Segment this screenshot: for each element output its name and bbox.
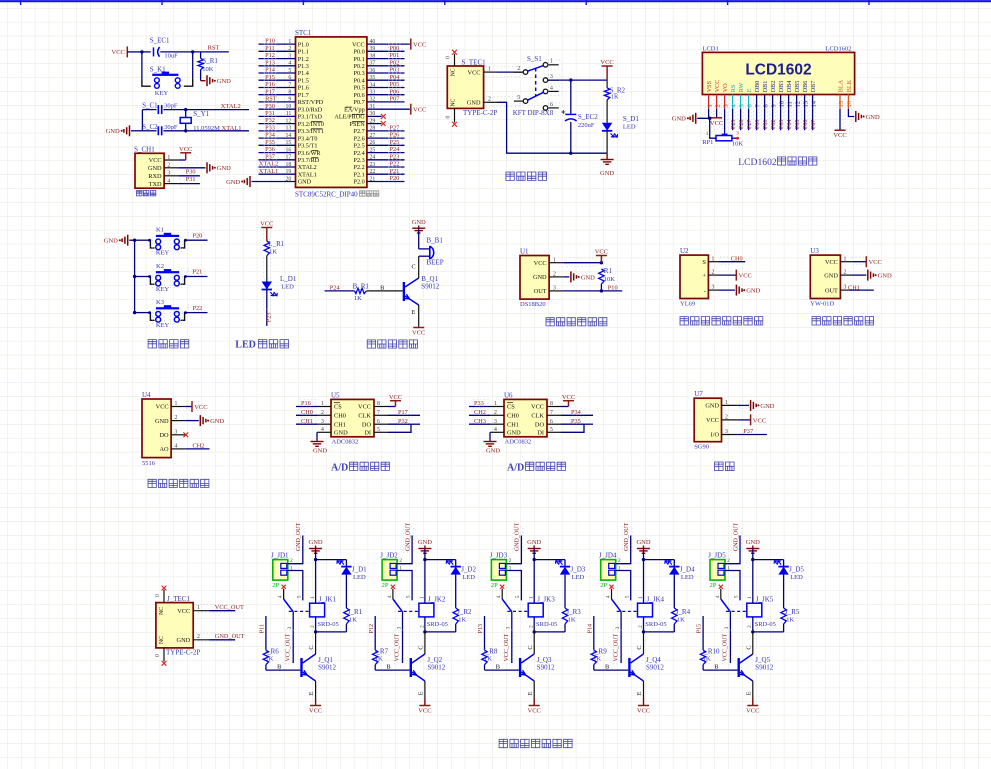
svg-text:2: 2 bbox=[727, 558, 730, 564]
svg-text:30pF: 30pF bbox=[164, 124, 178, 131]
svg-text:GND: GND bbox=[600, 170, 614, 177]
svg-text:10K: 10K bbox=[604, 276, 616, 283]
svg-text:1: 1 bbox=[197, 605, 200, 611]
svg-text:5: 5 bbox=[624, 595, 630, 598]
svg-text:B: B bbox=[605, 663, 609, 670]
svg-text:GND: GND bbox=[746, 539, 760, 546]
svg-text:1: 1 bbox=[310, 596, 316, 599]
svg-text:P3.1/TxD: P3.1/TxD bbox=[298, 114, 323, 121]
svg-text:VCC: VCC bbox=[714, 80, 721, 93]
svg-text:P13: P13 bbox=[478, 624, 484, 633]
svg-text:VCC: VCC bbox=[746, 708, 759, 715]
svg-text:BLA: BLA bbox=[838, 79, 845, 92]
svg-text:S9012: S9012 bbox=[427, 663, 445, 671]
svg-text:K2: K2 bbox=[156, 263, 164, 270]
svg-text:7: 7 bbox=[377, 410, 380, 416]
svg-text:5: 5 bbox=[550, 427, 553, 433]
svg-text:P02: P02 bbox=[390, 59, 400, 66]
svg-text:RST: RST bbox=[208, 45, 220, 52]
svg-text:J_R9: J_R9 bbox=[592, 648, 607, 656]
svg-text:GND: GND bbox=[155, 418, 169, 425]
svg-text:P04: P04 bbox=[787, 120, 793, 129]
svg-text:L_R1: L_R1 bbox=[268, 240, 284, 248]
svg-text:SRD-05: SRD-05 bbox=[755, 621, 776, 628]
svg-text:RP1: RP1 bbox=[702, 139, 713, 146]
svg-text:VCC: VCC bbox=[260, 221, 273, 228]
svg-text:VCC_OUT: VCC_OUT bbox=[395, 633, 401, 661]
svg-text:10uF: 10uF bbox=[164, 53, 178, 60]
svg-text:B: B bbox=[714, 663, 718, 670]
svg-text:VCC: VCC bbox=[531, 404, 544, 411]
svg-text:GND: GND bbox=[636, 539, 650, 546]
svg-text:LED: LED bbox=[281, 283, 294, 290]
svg-text:VCC: VCC bbox=[309, 708, 322, 715]
svg-text:+: + bbox=[702, 272, 706, 279]
svg-text:P32: P32 bbox=[265, 117, 275, 124]
svg-text:5: 5 bbox=[377, 427, 380, 433]
svg-text:GND: GND bbox=[746, 288, 760, 295]
svg-text:4: 4 bbox=[167, 178, 170, 184]
svg-text:NC: NC bbox=[159, 607, 165, 615]
svg-text:EA/Vpp: EA/Vpp bbox=[344, 106, 365, 113]
svg-text:GND: GND bbox=[210, 418, 224, 425]
svg-text:P14: P14 bbox=[587, 624, 593, 633]
svg-text:CH2: CH2 bbox=[193, 443, 205, 450]
svg-text:P2.7: P2.7 bbox=[354, 128, 365, 135]
svg-text:E: E bbox=[527, 691, 534, 695]
svg-text:VCC: VCC bbox=[869, 259, 882, 266]
svg-text:GND_OUT: GND_OUT bbox=[733, 523, 739, 552]
svg-text:J_JK2: J_JK2 bbox=[428, 596, 446, 604]
svg-text:VCC: VCC bbox=[468, 69, 481, 76]
svg-text:J_JD3: J_JD3 bbox=[490, 551, 508, 559]
svg-text:E: E bbox=[412, 309, 416, 316]
svg-text:C: C bbox=[527, 645, 534, 649]
svg-text:P12: P12 bbox=[265, 52, 275, 59]
svg-text:BEEP: BEEP bbox=[427, 258, 444, 266]
svg-text:4: 4 bbox=[278, 595, 284, 598]
svg-text:U2: U2 bbox=[680, 247, 689, 255]
svg-text:U4: U4 bbox=[142, 391, 151, 399]
svg-text:P0.3: P0.3 bbox=[354, 70, 365, 77]
svg-text:P13: P13 bbox=[265, 59, 275, 66]
svg-text:S_CH1: S_CH1 bbox=[134, 145, 155, 153]
svg-text:3: 3 bbox=[722, 104, 729, 107]
svg-text:GND: GND bbox=[527, 539, 541, 546]
svg-text:DO: DO bbox=[535, 421, 545, 428]
svg-text:P3.4/T0: P3.4/T0 bbox=[298, 135, 318, 142]
svg-text:GND: GND bbox=[177, 637, 191, 644]
svg-text:U3: U3 bbox=[810, 247, 819, 255]
svg-text:VCC_OUT: VCC_OUT bbox=[215, 604, 244, 611]
svg-text:2: 2 bbox=[509, 558, 512, 564]
svg-text:3: 3 bbox=[494, 419, 497, 425]
svg-text:VCC: VCC bbox=[739, 273, 752, 280]
svg-text:VCC: VCC bbox=[833, 132, 846, 139]
svg-text:ADC0832: ADC0832 bbox=[505, 439, 532, 446]
svg-text:RST/VPD: RST/VPD bbox=[298, 99, 324, 106]
svg-text:P23: P23 bbox=[390, 153, 400, 160]
svg-text:GND: GND bbox=[581, 274, 595, 281]
svg-text:3: 3 bbox=[396, 626, 402, 629]
svg-text:P02: P02 bbox=[771, 120, 777, 129]
svg-text:J_R3: J_R3 bbox=[566, 608, 581, 616]
svg-text:P31: P31 bbox=[186, 176, 196, 183]
svg-text:DB6: DB6 bbox=[802, 81, 809, 93]
svg-text:B_R1: B_R1 bbox=[353, 282, 370, 290]
svg-text:3: 3 bbox=[167, 171, 170, 177]
svg-text:E: E bbox=[636, 691, 643, 695]
svg-text:P2.2: P2.2 bbox=[354, 164, 365, 171]
svg-text:B_B1: B_B1 bbox=[427, 237, 444, 245]
svg-text:11: 11 bbox=[786, 101, 793, 107]
svg-text:P00: P00 bbox=[755, 120, 761, 129]
svg-text:VCC: VCC bbox=[825, 259, 838, 266]
svg-text:1: 1 bbox=[175, 401, 178, 407]
svg-text:LED: LED bbox=[235, 340, 256, 351]
svg-text:P3.6/WR: P3.6/WR bbox=[298, 150, 322, 157]
svg-text:VCC: VCC bbox=[595, 249, 608, 256]
svg-text:CLK: CLK bbox=[358, 413, 371, 420]
svg-text:1K: 1K bbox=[375, 656, 383, 663]
svg-text:CLK: CLK bbox=[531, 413, 544, 420]
svg-text:1: 1 bbox=[488, 66, 491, 72]
svg-text:L_D1: L_D1 bbox=[280, 275, 297, 283]
svg-text:VCC: VCC bbox=[177, 608, 190, 615]
svg-text:2: 2 bbox=[321, 410, 324, 416]
svg-text:1K: 1K bbox=[677, 617, 685, 624]
svg-text:0: 0 bbox=[155, 654, 161, 657]
svg-text:CH1: CH1 bbox=[848, 284, 860, 291]
svg-text:J_JD4: J_JD4 bbox=[599, 551, 617, 559]
svg-text:P0.6: P0.6 bbox=[354, 92, 365, 99]
svg-text:P04: P04 bbox=[390, 74, 401, 81]
svg-text:CH1: CH1 bbox=[334, 421, 346, 428]
svg-text:0: 0 bbox=[155, 594, 161, 597]
svg-text:U1: U1 bbox=[520, 248, 529, 256]
svg-text:XTAL2: XTAL2 bbox=[298, 164, 317, 171]
svg-text:B: B bbox=[380, 284, 384, 291]
svg-text:P22: P22 bbox=[193, 305, 203, 312]
svg-text:P06: P06 bbox=[390, 88, 400, 95]
svg-text:S9012: S9012 bbox=[646, 663, 664, 671]
svg-text:CH0: CH0 bbox=[334, 413, 346, 420]
svg-text:YL69: YL69 bbox=[680, 300, 695, 307]
svg-text:C: C bbox=[636, 645, 643, 649]
svg-text:VCC: VCC bbox=[600, 59, 613, 66]
svg-text:KEY: KEY bbox=[156, 250, 170, 257]
svg-text:S_C1: S_C1 bbox=[142, 102, 158, 110]
svg-text:DI: DI bbox=[537, 430, 544, 437]
svg-text:XTAL2: XTAL2 bbox=[221, 103, 241, 110]
svg-text:GND: GND bbox=[486, 447, 500, 454]
svg-text:P12: P12 bbox=[369, 624, 375, 633]
svg-text:GND: GND bbox=[866, 114, 880, 121]
svg-text:2: 2 bbox=[488, 97, 491, 103]
svg-text:SRD-05: SRD-05 bbox=[536, 621, 557, 628]
svg-text:P3.2/INT0: P3.2/INT0 bbox=[298, 121, 324, 128]
svg-text:J_JK5: J_JK5 bbox=[756, 596, 774, 604]
svg-text:1: 1 bbox=[638, 596, 644, 599]
svg-text:E: E bbox=[308, 691, 315, 695]
svg-text:DI: DI bbox=[364, 430, 371, 437]
svg-text:4: 4 bbox=[321, 427, 324, 433]
svg-text:GND_OUT: GND_OUT bbox=[624, 523, 630, 552]
svg-text:J_R7: J_R7 bbox=[374, 648, 389, 656]
svg-text:P23: P23 bbox=[266, 312, 273, 322]
svg-text:J_D5: J_D5 bbox=[789, 566, 804, 574]
svg-text:VCC: VCC bbox=[418, 708, 431, 715]
svg-text:6: 6 bbox=[746, 104, 753, 107]
svg-text:4: 4 bbox=[606, 595, 612, 598]
svg-text:P3.0/RxD: P3.0/RxD bbox=[298, 106, 323, 113]
svg-text:P20: P20 bbox=[390, 175, 400, 182]
svg-text:DB7: DB7 bbox=[810, 81, 817, 93]
svg-text:E: E bbox=[746, 88, 753, 92]
svg-text:VO: VO bbox=[722, 83, 729, 92]
svg-text:3: 3 bbox=[506, 626, 512, 629]
svg-text:J_D4: J_D4 bbox=[680, 566, 695, 574]
svg-text:1K: 1K bbox=[484, 656, 492, 663]
svg-text:GND: GND bbox=[226, 179, 240, 186]
svg-text:S_R1: S_R1 bbox=[202, 57, 218, 65]
svg-text:GND: GND bbox=[760, 403, 774, 410]
svg-text:J_JK3: J_JK3 bbox=[537, 596, 555, 604]
svg-text:P36: P36 bbox=[265, 146, 275, 153]
svg-text:GND: GND bbox=[418, 539, 432, 546]
svg-text:7: 7 bbox=[550, 410, 553, 416]
svg-text:P21: P21 bbox=[390, 168, 400, 175]
svg-text:P25: P25 bbox=[390, 139, 400, 146]
svg-text:DB2: DB2 bbox=[770, 81, 777, 93]
svg-text:2P: 2P bbox=[382, 582, 389, 589]
svg-text:LCD1602: LCD1602 bbox=[738, 157, 777, 168]
svg-text:GND_OUT: GND_OUT bbox=[515, 523, 521, 552]
svg-text:3: 3 bbox=[615, 626, 621, 629]
svg-text:2: 2 bbox=[399, 558, 402, 564]
svg-text:DB5: DB5 bbox=[794, 81, 801, 93]
svg-text:U6: U6 bbox=[504, 391, 513, 399]
svg-text:DO: DO bbox=[159, 432, 169, 439]
svg-text:STC89C52RC_DIP40: STC89C52RC_DIP40 bbox=[295, 190, 358, 198]
svg-text:1: 1 bbox=[167, 155, 170, 161]
svg-text:GND: GND bbox=[507, 430, 521, 437]
svg-text:VCC: VCC bbox=[413, 107, 426, 114]
svg-text:GND: GND bbox=[672, 116, 686, 123]
svg-text:1K: 1K bbox=[269, 248, 277, 255]
svg-text:8: 8 bbox=[550, 401, 553, 407]
svg-text:15: 15 bbox=[838, 101, 845, 107]
svg-text:GND: GND bbox=[298, 179, 312, 186]
svg-text:P37: P37 bbox=[743, 428, 753, 435]
svg-text:3: 3 bbox=[553, 286, 556, 292]
svg-text:3: 3 bbox=[844, 285, 847, 291]
svg-text:VCC: VCC bbox=[753, 417, 766, 424]
svg-text:P3.5/T1: P3.5/T1 bbox=[298, 143, 318, 150]
svg-text:DS18B20: DS18B20 bbox=[520, 301, 546, 308]
svg-text:P0.1: P0.1 bbox=[354, 56, 365, 63]
svg-text:P31: P31 bbox=[265, 110, 275, 117]
svg-text:LED: LED bbox=[790, 574, 803, 581]
svg-text:P11: P11 bbox=[260, 624, 266, 633]
svg-text:K1: K1 bbox=[156, 227, 164, 234]
svg-text:10K: 10K bbox=[202, 66, 214, 73]
svg-text:1K: 1K bbox=[349, 617, 357, 624]
svg-text:SG90: SG90 bbox=[694, 444, 709, 451]
svg-text:P2.0: P2.0 bbox=[354, 179, 365, 186]
svg-text:C: C bbox=[412, 263, 416, 270]
svg-text:J_R4: J_R4 bbox=[676, 608, 691, 616]
svg-text:VCC: VCC bbox=[179, 146, 192, 153]
svg-text:P30: P30 bbox=[265, 103, 275, 110]
svg-text:3: 3 bbox=[175, 429, 178, 435]
svg-text:S9012: S9012 bbox=[755, 663, 773, 671]
svg-text:2: 2 bbox=[725, 415, 728, 421]
svg-text:P0.0: P0.0 bbox=[354, 49, 365, 56]
svg-text:1: 1 bbox=[321, 401, 324, 407]
svg-text:P34: P34 bbox=[265, 132, 276, 139]
svg-text:DB1: DB1 bbox=[762, 81, 769, 93]
svg-text:KEY: KEY bbox=[156, 286, 170, 293]
svg-text:1K: 1K bbox=[458, 617, 466, 624]
svg-text:GND: GND bbox=[217, 78, 231, 85]
svg-text:CH0: CH0 bbox=[731, 255, 743, 262]
svg-text:P01: P01 bbox=[390, 52, 400, 59]
svg-text:P17: P17 bbox=[265, 88, 275, 95]
svg-text:LED: LED bbox=[623, 124, 636, 131]
svg-text:CH0: CH0 bbox=[507, 413, 519, 420]
svg-text:LCD1: LCD1 bbox=[703, 46, 719, 53]
svg-text:1: 1 bbox=[553, 257, 556, 263]
svg-text:P22: P22 bbox=[390, 161, 400, 168]
svg-text:P25: P25 bbox=[731, 120, 737, 129]
svg-text:GND_OUT: GND_OUT bbox=[405, 523, 411, 552]
svg-text:2: 2 bbox=[167, 163, 170, 169]
svg-text:2: 2 bbox=[714, 104, 721, 107]
svg-text:J_JD5: J_JD5 bbox=[708, 551, 726, 559]
svg-text:GND: GND bbox=[878, 273, 892, 280]
svg-text:RS: RS bbox=[730, 84, 737, 92]
svg-text:P15: P15 bbox=[265, 74, 275, 81]
svg-text:S_K1: S_K1 bbox=[150, 65, 166, 73]
svg-text:P06: P06 bbox=[803, 120, 809, 129]
svg-text:P01: P01 bbox=[763, 120, 769, 129]
svg-text:1K: 1K bbox=[703, 656, 711, 663]
svg-text:LCD1602: LCD1602 bbox=[826, 46, 852, 53]
svg-text:2: 2 bbox=[175, 415, 178, 421]
svg-text:5: 5 bbox=[738, 104, 745, 107]
svg-text:1: 1 bbox=[529, 596, 535, 599]
svg-text:P00: P00 bbox=[390, 45, 400, 52]
svg-text:J_D3: J_D3 bbox=[571, 566, 586, 574]
svg-text:S_Y1: S_Y1 bbox=[193, 110, 209, 118]
svg-text:6: 6 bbox=[377, 419, 380, 425]
svg-text:1K: 1K bbox=[611, 94, 619, 101]
svg-text:P24: P24 bbox=[390, 146, 401, 153]
svg-text:J_D2: J_D2 bbox=[461, 566, 476, 574]
svg-text:1: 1 bbox=[706, 104, 713, 107]
svg-text:1: 1 bbox=[706, 131, 709, 137]
svg-text:VCC: VCC bbox=[710, 120, 723, 127]
svg-text:2: 2 bbox=[197, 634, 200, 640]
svg-text:1: 1 bbox=[712, 256, 715, 262]
svg-text:R1: R1 bbox=[604, 267, 613, 275]
svg-text:LED: LED bbox=[572, 574, 585, 581]
svg-text:P15: P15 bbox=[697, 624, 703, 633]
svg-text:2: 2 bbox=[553, 272, 556, 278]
svg-text:DB3: DB3 bbox=[778, 81, 785, 93]
svg-text:2: 2 bbox=[290, 558, 293, 564]
svg-text:14: 14 bbox=[810, 100, 817, 107]
svg-text:11.0592M: 11.0592M bbox=[193, 125, 220, 132]
svg-text:1K: 1K bbox=[568, 617, 576, 624]
svg-text:P0.5: P0.5 bbox=[354, 85, 365, 92]
svg-text:16: 16 bbox=[846, 101, 853, 107]
svg-text:VCC: VCC bbox=[194, 404, 207, 411]
svg-text:P33: P33 bbox=[265, 125, 275, 132]
svg-text:TYPE-C-2P: TYPE-C-2P bbox=[166, 649, 200, 657]
svg-text:P2.1: P2.1 bbox=[354, 171, 365, 178]
svg-text:VCC: VCC bbox=[706, 417, 719, 424]
svg-text:VCC: VCC bbox=[156, 404, 169, 411]
svg-text:GND: GND bbox=[467, 100, 481, 107]
svg-text:3: 3 bbox=[321, 419, 324, 425]
svg-text:P2.6: P2.6 bbox=[354, 135, 365, 142]
svg-text:B: B bbox=[386, 663, 390, 670]
svg-text:P1.4: P1.4 bbox=[298, 70, 309, 77]
svg-text:3: 3 bbox=[712, 285, 715, 291]
svg-text:GND: GND bbox=[106, 128, 120, 135]
svg-text:ADC0832: ADC0832 bbox=[332, 439, 359, 446]
svg-text:P2.3: P2.3 bbox=[354, 157, 365, 164]
svg-text:VCC: VCC bbox=[352, 41, 365, 48]
svg-text:S_EC2: S_EC2 bbox=[578, 113, 598, 121]
svg-text:1K: 1K bbox=[354, 295, 362, 302]
svg-text:VCC: VCC bbox=[389, 394, 402, 401]
svg-text:PSEN: PSEN bbox=[350, 121, 366, 128]
svg-text:A/D: A/D bbox=[331, 462, 348, 473]
svg-text:P1.3: P1.3 bbox=[298, 63, 309, 70]
svg-text:GND: GND bbox=[313, 447, 327, 454]
svg-text:4: 4 bbox=[494, 427, 497, 433]
svg-text:3: 3 bbox=[287, 626, 293, 629]
svg-text:S9012: S9012 bbox=[318, 663, 336, 671]
svg-text:AO: AO bbox=[159, 446, 169, 453]
svg-text:XTAL1: XTAL1 bbox=[222, 125, 242, 132]
svg-text:P30: P30 bbox=[186, 168, 196, 175]
svg-text:9: 9 bbox=[770, 104, 777, 107]
svg-text:P1.2: P1.2 bbox=[298, 56, 309, 63]
svg-text:C: C bbox=[418, 645, 425, 649]
svg-text:VSS: VSS bbox=[706, 80, 713, 92]
svg-text:J_JK1: J_JK1 bbox=[319, 596, 337, 604]
svg-text:E: E bbox=[745, 691, 752, 695]
svg-text:RXD: RXD bbox=[148, 173, 162, 180]
svg-text:VCC: VCC bbox=[412, 330, 425, 337]
svg-text:U7: U7 bbox=[694, 390, 703, 398]
svg-text:P05: P05 bbox=[390, 81, 400, 88]
svg-text:P35: P35 bbox=[265, 139, 275, 146]
svg-text:J_R5: J_R5 bbox=[785, 608, 800, 616]
svg-text:VCC_OUT: VCC_OUT bbox=[285, 633, 291, 661]
svg-text:4: 4 bbox=[496, 595, 502, 598]
svg-text:GND: GND bbox=[533, 274, 547, 281]
svg-text:P05: P05 bbox=[795, 120, 801, 129]
svg-text:OUT: OUT bbox=[825, 287, 838, 294]
svg-text:TXD: TXD bbox=[149, 181, 162, 188]
svg-text:DB0: DB0 bbox=[754, 81, 761, 93]
svg-text:GND: GND bbox=[412, 219, 426, 226]
